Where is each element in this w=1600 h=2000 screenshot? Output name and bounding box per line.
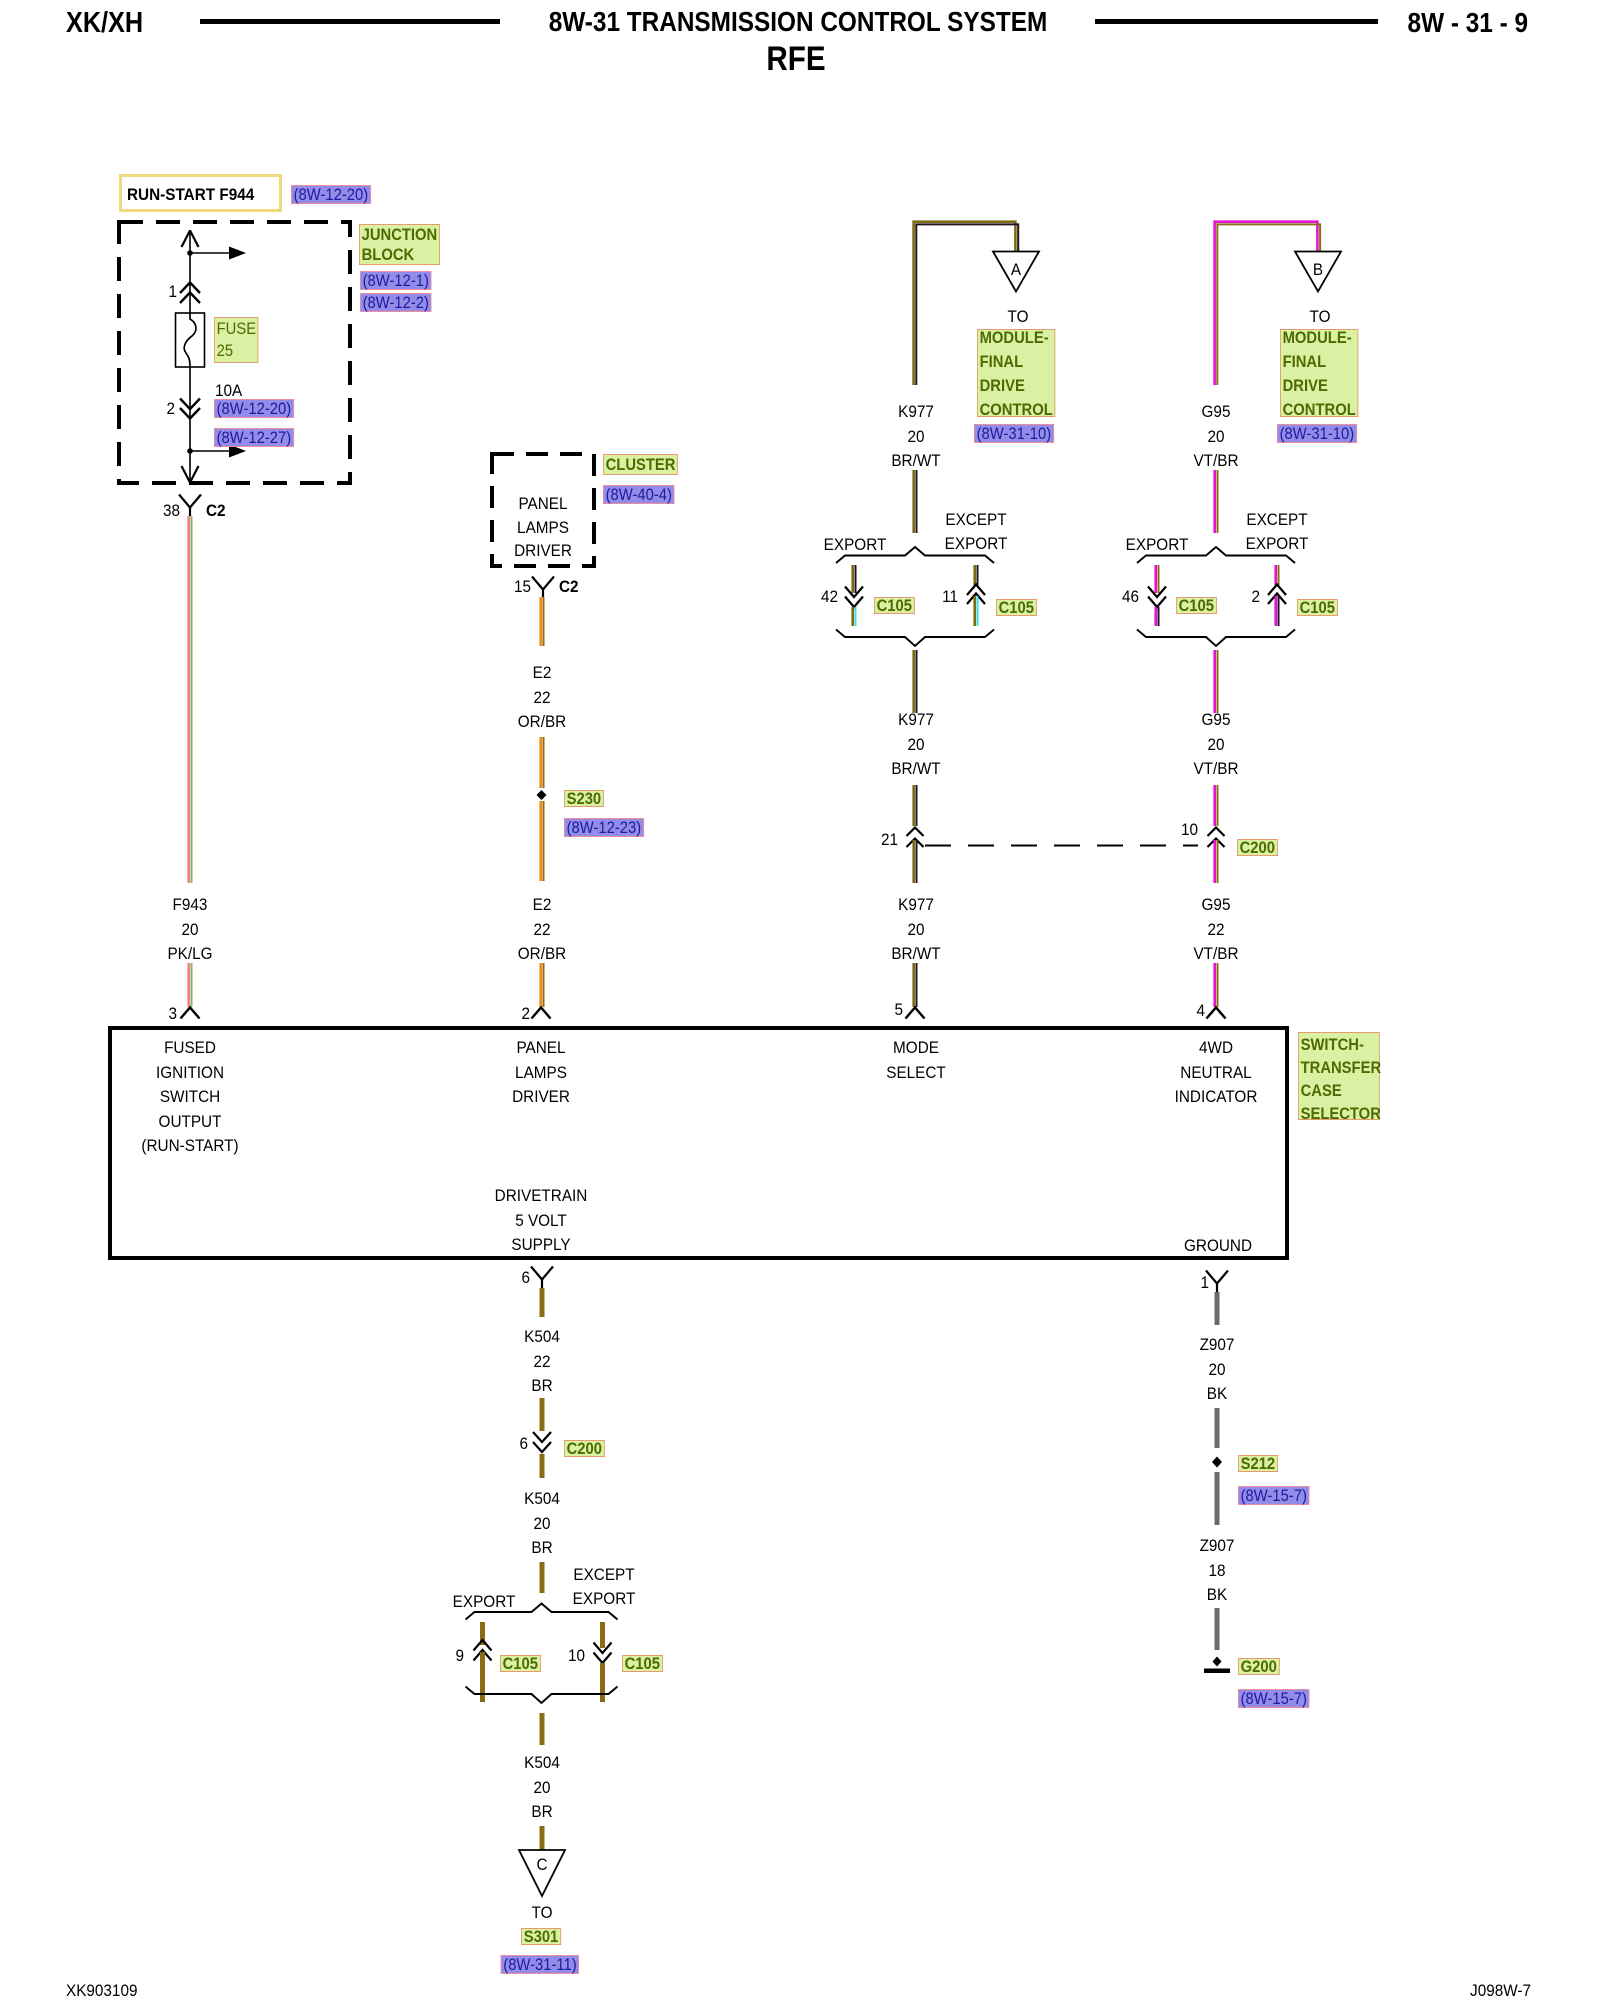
brace export merge G95 bottom	[1137, 630, 1295, 647]
box fused ignition text	[141, 1036, 238, 1159]
wire K504 seg2	[540, 1398, 545, 1431]
wire K977 seg4	[914, 785, 917, 826]
arrow up C105-9	[474, 1650, 492, 1661]
wire label K504 3	[524, 1751, 560, 1825]
fuse 25 body	[176, 313, 205, 367]
connector C105 label 3	[1176, 597, 1217, 614]
wire Z907 seg1	[1215, 1292, 1220, 1325]
wire K977 top run	[914, 222, 1019, 385]
wire K977 seg2	[914, 470, 917, 533]
header model	[66, 11, 143, 36]
ref 8W-15-7 a	[1238, 1486, 1310, 1505]
arrow right lower	[229, 445, 246, 458]
wire label G95 2	[1193, 708, 1238, 782]
export label G95	[1126, 533, 1189, 558]
to module text A	[1008, 305, 1029, 330]
pin 9 number	[455, 1644, 464, 1669]
cluster module text	[514, 492, 572, 563]
wire G95 seg5	[1215, 840, 1218, 883]
connector C2 name cluster	[559, 575, 579, 600]
wire K977 except upper	[975, 565, 978, 585]
wire F943 PK/LG upper	[189, 516, 192, 883]
node junction lower	[187, 448, 193, 454]
off-page connector B	[1295, 252, 1341, 292]
wire K977 export lower	[853, 607, 856, 626]
arrow up to fuse label	[182, 231, 199, 248]
pin 38 number	[163, 499, 180, 524]
except export label K504	[573, 1563, 636, 1612]
connector C1 pin 1	[1206, 1271, 1228, 1293]
box drivetrain text	[495, 1184, 588, 1258]
wire E2 OR/BR seg2	[541, 737, 544, 788]
pin 10b number	[568, 1644, 585, 1669]
ref 8W-31-10 A	[974, 424, 1054, 443]
brace export merge K504 bottom	[466, 1687, 618, 1704]
fuse block F944 label box	[119, 174, 282, 212]
connector C105 label 6	[622, 1655, 663, 1672]
pin 46 number	[1122, 585, 1139, 610]
ref 8W-15-7 b	[1238, 1689, 1310, 1708]
wire G95 top run	[1215, 222, 1321, 385]
header RFE	[766, 47, 825, 72]
connector pin 1 chevrons	[180, 283, 200, 304]
brace export merge K977 bottom	[836, 630, 994, 647]
ground G200 label	[1238, 1658, 1279, 1675]
pin 4 chevron	[1207, 1008, 1226, 1019]
wire K504 except lower	[600, 1663, 605, 1702]
arrow down to C2	[182, 466, 199, 483]
off-page connector A	[993, 252, 1039, 292]
junction block dashed box	[119, 222, 350, 483]
wire junction block vertical	[189, 230, 191, 483]
header rule right	[1095, 19, 1378, 24]
wire label Z907 1	[1200, 1333, 1235, 1407]
arrow right upper	[229, 247, 246, 260]
wire K504 export upper	[480, 1622, 485, 1645]
footer left	[66, 1979, 137, 2000]
pin 1b number	[1200, 1271, 1209, 1296]
ref 8W-40-4	[603, 485, 675, 504]
ref 8W-12-23	[564, 818, 644, 837]
off-page connector C	[519, 1850, 565, 1896]
to S301 text	[532, 1901, 553, 1926]
connector C105 pin 10 chevron	[594, 1653, 612, 1664]
wire K504 seg1	[540, 1288, 545, 1317]
wire branch upper	[190, 252, 229, 254]
splice S230 label	[564, 790, 604, 807]
arrow down C105-10	[594, 1643, 612, 1654]
pin 2 chevron	[532, 1008, 551, 1019]
wire G95 seg6	[1215, 963, 1218, 1007]
brace export split K977 top	[836, 547, 994, 563]
footer right	[1470, 1979, 1531, 2000]
arrow up C105-11	[967, 594, 985, 605]
connector C200 pin 10 chevrons	[1208, 828, 1225, 848]
splice S212	[1212, 1457, 1222, 1468]
wire E2 OR/BR seg3	[541, 801, 544, 881]
pin 2 number	[166, 397, 175, 422]
arrow down C105-42	[845, 587, 863, 598]
connector C200 pin 21 chevrons	[907, 828, 924, 848]
wire label G95 1	[1193, 400, 1238, 474]
off-page B letter	[1313, 258, 1323, 283]
ref 8W-12-1	[360, 271, 432, 290]
module final drive label B	[1280, 329, 1358, 417]
ref 8W-12-2	[360, 293, 432, 312]
node junction upper	[187, 250, 193, 256]
connector C1 pin 6	[531, 1267, 553, 1289]
pin 6b number	[519, 1432, 528, 1457]
wire G95 export lower	[1156, 607, 1159, 626]
pin 2 number C105	[1251, 585, 1260, 610]
off-page C letter	[536, 1853, 547, 1878]
wire K977 except lower	[975, 596, 978, 626]
ref 8W-31-11	[501, 1955, 580, 1974]
ref 8W-31-10 B	[1277, 424, 1357, 443]
box panel lamps text	[512, 1036, 570, 1110]
connector C105 label 5	[500, 1655, 541, 1672]
connector C105 pin 46 chevron	[1148, 597, 1166, 608]
wire K504 seg3	[540, 1454, 545, 1478]
cluster label	[603, 454, 678, 475]
switch transfer case label	[1298, 1032, 1380, 1120]
connector C105 label 4	[1297, 599, 1338, 616]
splice S301 label	[521, 1928, 561, 1945]
connector C2 pin 38	[179, 495, 201, 517]
wire label K977 3	[891, 893, 940, 967]
wire E2 OR/BR seg1	[541, 597, 544, 646]
wire G95 seg3	[1215, 650, 1218, 713]
splice S212 label	[1238, 1455, 1278, 1472]
connector C2 pin 15	[532, 577, 554, 598]
except export label G95	[1246, 508, 1309, 557]
wire Z907 seg4	[1215, 1608, 1220, 1650]
connector C2 name	[206, 499, 226, 524]
wire label K977 2	[891, 708, 940, 782]
wire K977 seg5	[914, 840, 917, 883]
ref 8W-12-27	[214, 428, 294, 447]
connector C105 pin 11 chevron	[967, 585, 985, 596]
wire label F943	[167, 893, 212, 967]
pin 4 number	[1196, 999, 1205, 1024]
box ground text	[1184, 1234, 1252, 1259]
splice S230	[537, 790, 547, 800]
wire label K977 1	[891, 400, 940, 474]
connector C200 pin 6 chevrons	[533, 1432, 551, 1452]
export label K504	[452, 1590, 515, 1615]
wire label K504 1	[524, 1325, 560, 1399]
wire label Z907 2	[1200, 1534, 1235, 1608]
pin 3 chevron	[181, 1008, 200, 1019]
header rule left	[200, 19, 500, 24]
connector pin 2 chevrons	[180, 399, 200, 419]
pin 10 number	[1181, 818, 1198, 843]
wire K504 seg6	[540, 1826, 545, 1850]
ground G200	[1204, 1657, 1230, 1674]
box mode select text	[886, 1036, 946, 1085]
fuse F944 text	[127, 183, 254, 208]
wire Z907 seg2	[1215, 1408, 1220, 1448]
ref 8W-12-20 fuse	[214, 399, 294, 418]
wire label E2 upper	[518, 661, 566, 735]
connector C105 label 2	[996, 599, 1037, 616]
export label K977	[824, 533, 887, 558]
brace export split K504 top	[466, 1604, 618, 1620]
connector C105 pin 42 chevron	[845, 597, 863, 608]
wire K504 except upper	[600, 1622, 605, 1648]
wire G95 except lower	[1276, 596, 1279, 626]
arrow up C105-2	[1268, 594, 1286, 605]
wire F943 PK/LG lower	[189, 963, 192, 1007]
wire label K504 2	[524, 1487, 560, 1561]
fuse rating	[215, 379, 242, 404]
except export label K977	[945, 508, 1008, 557]
pin 2 number cluster	[521, 1002, 530, 1027]
connector C105 pin 9 chevron	[474, 1640, 492, 1651]
pin 1 number	[168, 280, 177, 305]
wire label E2 lower	[518, 893, 566, 967]
pin 15 number	[514, 575, 531, 600]
ref 8W-12-20 top	[291, 185, 371, 204]
connector C105 pin 2 chevron	[1268, 585, 1286, 596]
wire K977 export upper	[853, 565, 856, 593]
pin 6 number	[521, 1266, 530, 1291]
box 4wd neutral text	[1175, 1036, 1258, 1110]
wire K504 seg5	[540, 1713, 545, 1745]
off-page A letter	[1011, 258, 1021, 283]
wire Z907 seg3	[1215, 1472, 1220, 1525]
switch-transfer case selector box	[110, 1028, 1287, 1258]
junction block label	[359, 224, 440, 265]
arrow down C105-46	[1148, 587, 1166, 598]
wire K504 export lower	[480, 1652, 485, 1702]
wire K977 seg6	[914, 963, 917, 1007]
pin 21 number	[881, 828, 898, 853]
header title	[549, 10, 1047, 35]
wire E2 OR/BR seg4	[541, 963, 544, 1007]
wire G95 except upper	[1276, 565, 1279, 585]
pin 42 number	[821, 585, 838, 610]
pin 11 number	[942, 585, 958, 610]
wire K977 seg3	[914, 650, 917, 713]
wire K504 seg4	[540, 1562, 545, 1593]
wire branch lower	[190, 450, 229, 452]
cluster dashed box	[492, 454, 594, 566]
wire G95 seg2	[1215, 470, 1218, 533]
module final drive label A	[977, 329, 1055, 417]
wire G95 seg4	[1215, 785, 1218, 826]
connector C200 label right	[1237, 839, 1278, 856]
connector C105 label 1	[874, 597, 915, 614]
header page	[1408, 11, 1528, 36]
brace export split G95 top	[1137, 547, 1295, 563]
connector C200 label bottom	[564, 1440, 605, 1457]
wire label G95 3	[1193, 893, 1238, 967]
pin 5 chevron	[906, 1008, 925, 1019]
pin 3 number	[168, 1002, 177, 1027]
fuse 25 label	[214, 317, 259, 363]
wire C200 dashed link	[925, 845, 1198, 847]
to module text B	[1310, 305, 1331, 330]
pin 5 number	[894, 998, 903, 1023]
wire G95 export upper	[1156, 565, 1159, 593]
